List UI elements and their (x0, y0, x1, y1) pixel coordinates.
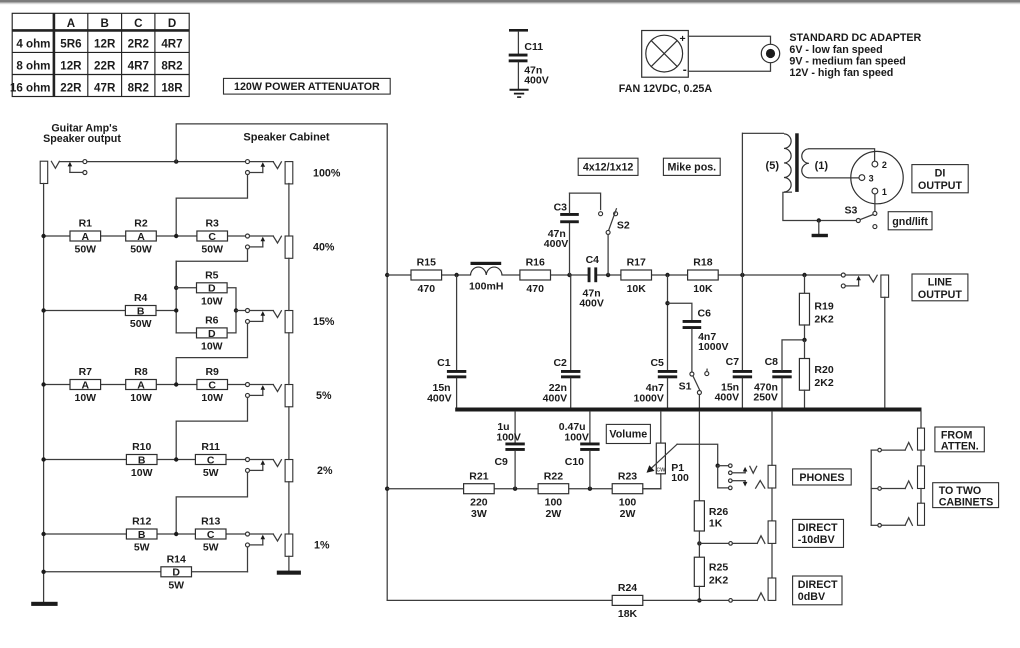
resistor R14 (161, 567, 192, 577)
resistor R8 (126, 380, 157, 390)
node input tap (174, 159, 178, 163)
svg-text:C1: C1 (437, 357, 451, 369)
transformer T1 primary coil (742, 132, 784, 134)
node mid row 5% (174, 382, 178, 386)
svg-text:2W: 2W (620, 508, 636, 520)
output jack 15% tip contact (273, 311, 281, 318)
svg-text:R13: R13 (201, 516, 220, 528)
from-atten tip contact (905, 443, 912, 451)
svg-text:D: D (208, 328, 216, 340)
line output jack wire (845, 274, 869, 276)
capacitor C3 branch (569, 223, 571, 275)
line output jack arrow (858, 279, 860, 286)
XLR pin 3 (859, 175, 865, 181)
svg-text:100mH: 100mH (469, 280, 503, 292)
node direct -10dBV (697, 541, 701, 545)
svg-text:D: D (172, 567, 180, 579)
svg-text:R20: R20 (814, 364, 833, 376)
svg-text:2R2: 2R2 (128, 38, 149, 51)
svg-text:5W: 5W (134, 542, 150, 554)
svg-text:10W: 10W (201, 295, 223, 307)
direct -10dBV tip contact (757, 536, 765, 544)
node mid row 2% (174, 457, 178, 461)
svg-text:10W: 10W (131, 467, 153, 479)
svg-text:10W: 10W (75, 392, 97, 404)
title box 120W POWER ATTENUATOR (224, 78, 391, 94)
wire bus to from-atten jack (920, 412, 922, 429)
node mid row 1% (174, 532, 178, 536)
wire R5/R6 parallel right (227, 288, 236, 333)
transformer T1 primary drop (741, 133, 743, 275)
svg-text:4x12/1x12: 4x12/1x12 (583, 162, 634, 174)
output jack 1% arrow (262, 538, 264, 545)
node left rail row 15% (41, 308, 45, 312)
svg-text:400V: 400V (543, 392, 568, 404)
svg-text:5R6: 5R6 (60, 38, 82, 51)
svg-text:400V: 400V (524, 74, 549, 86)
wire row 1% (44, 533, 127, 535)
svg-text:R4: R4 (134, 292, 148, 304)
capacitor C9 (514, 412, 516, 443)
wire R5/R6 parallel left (175, 261, 177, 333)
svg-text:10W: 10W (201, 392, 223, 404)
node transformer drop (740, 273, 744, 277)
svg-text:LINE: LINE (928, 277, 952, 289)
resistor R20 (804, 340, 806, 359)
output jack 1% tip contact (273, 534, 281, 541)
svg-text:Volume: Volume (609, 429, 647, 441)
from-atten switch contact (881, 449, 905, 451)
wire phones contacts (718, 465, 729, 467)
node left rail row 1% (41, 532, 45, 536)
output jack 2% switch contacts (246, 458, 250, 462)
output jack 2% sleeve (285, 460, 293, 482)
svg-text:A: A (137, 379, 145, 391)
svg-text:R9: R9 (205, 366, 219, 378)
svg-text:FAN 12VDC, 0.25A: FAN 12VDC, 0.25A (619, 83, 713, 95)
svg-text:22R: 22R (94, 60, 116, 73)
svg-text:5W: 5W (168, 579, 184, 591)
ground for C11 (510, 90, 529, 97)
wire line output sleeve to bus (884, 297, 886, 407)
svg-text:2K2: 2K2 (814, 377, 833, 389)
svg-text:DI: DI (935, 167, 946, 179)
wire direct -10dBV jack (699, 542, 728, 544)
svg-text:8 ohm: 8 ohm (16, 60, 50, 73)
direct 0dBV sleeve (768, 578, 776, 600)
node direct 0dBV (697, 598, 701, 602)
svg-text:100: 100 (671, 472, 689, 484)
svg-text:R11: R11 (201, 441, 220, 453)
cabinet jack 2 tip (905, 518, 912, 526)
svg-text:ATTEN.: ATTEN. (941, 441, 979, 453)
box Mike pos. (663, 158, 720, 175)
svg-text:R1: R1 (79, 218, 93, 230)
resistor R25 (694, 557, 704, 586)
wire 5% jack to row5 (176, 398, 247, 460)
transformer primary return wire (783, 192, 856, 220)
svg-text:8R2: 8R2 (161, 60, 182, 73)
output jack 1% switch contacts (246, 532, 250, 536)
input jack switch arrow (69, 165, 71, 172)
output jack 100% wire to tip (250, 161, 274, 163)
svg-text:9V - medium fan speed: 9V - medium fan speed (789, 55, 905, 67)
svg-text:C10: C10 (565, 456, 584, 468)
output jack 40% arrow (262, 240, 264, 247)
wire secondary to XLR (809, 149, 875, 161)
svg-text:C6: C6 (698, 308, 712, 320)
resistor R19 (804, 275, 806, 293)
output jack 40% tip contact (273, 236, 281, 243)
output jack 2% tip contact (273, 460, 281, 467)
resistor R26 (698, 412, 700, 501)
box DIRECT 0dBV (793, 576, 842, 605)
wire row 2% (44, 459, 127, 461)
svg-text:DIRECT: DIRECT (798, 522, 838, 534)
svg-text:0dBV: 0dBV (798, 591, 826, 603)
resistor R1 (70, 231, 101, 241)
svg-text:100%: 100% (313, 167, 341, 179)
output jack 5% arrow (262, 388, 264, 395)
svg-text:5%: 5% (316, 390, 332, 402)
input jack contacts (83, 160, 87, 164)
resistor R2 (126, 231, 157, 241)
line output jack tip (869, 275, 877, 282)
page top scan border (0, 0, 1020, 2)
wire direct 0dBV jack (699, 599, 728, 601)
svg-text:5W: 5W (203, 542, 219, 554)
svg-text:C8: C8 (765, 356, 779, 368)
svg-text:18K: 18K (618, 608, 638, 620)
cabinet jack 1 tip (905, 481, 912, 489)
svg-text:1000V: 1000V (634, 392, 664, 404)
svg-text:C: C (208, 231, 216, 243)
svg-text:10K: 10K (693, 283, 713, 295)
XLR pin 2 (872, 161, 878, 167)
node left rail row 40% (41, 234, 45, 238)
node left rail row 2% (41, 457, 45, 461)
ground DI (818, 221, 820, 234)
svg-text:50W: 50W (201, 244, 223, 256)
svg-text:100V: 100V (496, 431, 521, 443)
svg-text:250V: 250V (753, 392, 778, 404)
svg-text:2%: 2% (317, 465, 333, 477)
output jack 15% sleeve (285, 311, 293, 333)
svg-text:2: 2 (882, 160, 887, 170)
svg-text:R10: R10 (132, 441, 151, 453)
node C5/C6 (665, 273, 669, 277)
svg-text:-: - (683, 63, 687, 77)
node phones feed (716, 464, 720, 468)
svg-text:R6: R6 (205, 315, 219, 327)
node R19/R20 (802, 338, 806, 342)
output jack 40% sleeve (285, 236, 293, 258)
svg-text:400V: 400V (544, 238, 569, 250)
svg-text:+: + (680, 33, 686, 45)
svg-text:R7: R7 (79, 366, 93, 378)
wire pin1 to S3 (874, 194, 876, 211)
svg-text:100V: 100V (564, 431, 589, 443)
svg-text:10W: 10W (130, 392, 152, 404)
svg-text:470: 470 (418, 283, 436, 295)
svg-text:R23: R23 (618, 470, 637, 482)
svg-text:12R: 12R (94, 38, 116, 51)
svg-text:R21: R21 (469, 470, 488, 482)
svg-text:B: B (138, 454, 146, 466)
svg-text:R8: R8 (134, 366, 148, 378)
box gnd/lift (888, 212, 932, 230)
svg-text:C11: C11 (524, 41, 543, 53)
transformer T1 core (795, 133, 799, 192)
svg-text:2K2: 2K2 (814, 313, 833, 325)
ground left rail (31, 602, 57, 606)
svg-text:A: A (137, 231, 145, 243)
capacitor C2 (570, 275, 572, 370)
from-atten jack sleeve (918, 428, 925, 450)
box PHONES (793, 469, 852, 485)
node C1 (454, 273, 458, 277)
node left rail R14 (41, 570, 45, 574)
svg-text:470: 470 (526, 283, 544, 295)
capacitor C4 (588, 267, 591, 282)
node C9 (513, 487, 517, 491)
svg-text:400V: 400V (427, 392, 452, 404)
svg-text:5W: 5W (203, 467, 219, 479)
svg-text:12R: 12R (60, 60, 82, 73)
svg-text:R22: R22 (544, 470, 563, 482)
wire jack column link1 (920, 450, 922, 466)
node mid row 40% (174, 234, 178, 238)
output jack 100% sleeve (285, 162, 293, 184)
svg-text:R19: R19 (814, 300, 833, 312)
svg-text:10K: 10K (627, 283, 647, 295)
node S3 ground tap (817, 218, 821, 222)
svg-text:C9: C9 (494, 456, 508, 468)
svg-text:R14: R14 (167, 554, 186, 566)
svg-text:R26: R26 (709, 506, 728, 518)
wire jack column link2 (920, 489, 922, 504)
resistor R6 (197, 328, 228, 338)
node R19 top (802, 273, 806, 277)
switch S3 (856, 219, 860, 223)
wire row R14 (44, 571, 161, 573)
svg-text:R17: R17 (627, 257, 646, 269)
transformer T1 secondary coil (802, 149, 809, 178)
svg-text:C4: C4 (586, 254, 600, 266)
node C2/C3 (567, 273, 571, 277)
phones ring arrow (732, 480, 745, 482)
svg-text:B: B (138, 529, 146, 541)
resistor R12 (126, 529, 157, 539)
svg-text:22R: 22R (60, 82, 82, 95)
output jack 2% wire to tip (250, 459, 274, 461)
box LINE OUTPUT (912, 274, 968, 301)
svg-text:Speaker Cabinet: Speaker Cabinet (243, 132, 330, 144)
input jack J-in sleeve (40, 161, 48, 183)
ground speaker jack column (277, 571, 301, 575)
svg-text:R18: R18 (693, 257, 712, 269)
input jack tip contact (51, 161, 59, 168)
svg-text:R3: R3 (205, 218, 219, 230)
svg-text:S2: S2 (617, 219, 630, 231)
svg-text:C3: C3 (554, 201, 568, 213)
svg-text:C: C (207, 529, 215, 541)
capacitor C11 (509, 29, 528, 32)
cabinet jack 2 sleeve (918, 503, 925, 525)
svg-text:10W: 10W (201, 341, 223, 353)
svg-text:C: C (207, 454, 215, 466)
output jack 5% tip contact (273, 385, 281, 392)
output jack 1% sleeve (285, 534, 293, 556)
svg-text:S3: S3 (844, 204, 857, 216)
svg-text:8R2: 8R2 (128, 82, 149, 95)
svg-text:C7: C7 (726, 356, 740, 368)
XLR pin 1 (872, 188, 878, 194)
wire main input row (87, 161, 246, 163)
XLR connector DI (851, 151, 903, 203)
output jack 5% wire to tip (250, 384, 274, 386)
output jack 100% arrow (262, 165, 264, 172)
svg-text:Mike pos.: Mike pos. (667, 162, 716, 174)
capacitor C1 (456, 275, 458, 370)
svg-text:R2: R2 (134, 218, 148, 230)
svg-text:4 ohm: 4 ohm (16, 38, 50, 51)
resistor R5 (197, 283, 228, 293)
wire filter main (387, 274, 411, 276)
box FROM ATTEN (935, 427, 984, 452)
ground bus bar (455, 408, 921, 412)
svg-text:220: 220 (470, 497, 488, 509)
svg-text:1K: 1K (709, 518, 723, 530)
svg-text:gnd/lift: gnd/lift (892, 216, 928, 228)
resistor R16 (520, 270, 551, 280)
output jack 15% arrow (262, 314, 264, 321)
left rail wire (43, 184, 45, 602)
output jack 40% wire to tip (250, 235, 274, 237)
capacitor C10 (589, 412, 591, 443)
node tap R21 (385, 487, 389, 491)
svg-text:A: A (82, 231, 90, 243)
resistor R18 (688, 270, 719, 280)
resistor R3 (197, 231, 228, 241)
resistor R24 (612, 595, 643, 605)
svg-text:B: B (137, 305, 145, 317)
output jack 2% arrow (262, 463, 264, 470)
direct 0dBV tip contact (757, 593, 765, 601)
svg-text:DIRECT: DIRECT (798, 579, 838, 591)
svg-text:CABINETS: CABINETS (939, 496, 994, 508)
svg-text:B: B (101, 17, 109, 30)
svg-text:4R7: 4R7 (128, 60, 149, 73)
resistor R15 (411, 270, 442, 280)
svg-text:12V - high fan speed: 12V - high fan speed (789, 67, 893, 79)
svg-text:3: 3 (869, 173, 874, 183)
svg-text:OUTPUT: OUTPUT (918, 289, 962, 301)
inductor L1 100mH (471, 267, 503, 275)
P1 wiper arrow (651, 444, 677, 468)
wire R21 row (387, 488, 463, 490)
svg-text:PHONES: PHONES (799, 472, 844, 484)
line output jack switch contacts (841, 273, 845, 277)
fan symbol M1 (642, 31, 689, 78)
svg-text:-10dBV: -10dBV (798, 534, 836, 546)
phones tip arrow (732, 472, 745, 474)
box Volume (606, 424, 650, 443)
capacitor C5 (667, 275, 669, 370)
svg-text:4R7: 4R7 (161, 38, 182, 51)
svg-text:C: C (208, 379, 216, 391)
svg-text:100: 100 (619, 497, 637, 509)
resistor R4 (125, 306, 156, 316)
svg-text:1%: 1% (314, 540, 330, 552)
resistor R23 (612, 484, 643, 494)
switch S2 (599, 212, 603, 216)
wire 40% jack to row3 (176, 249, 247, 288)
output jack 5% switch contacts (246, 383, 250, 387)
svg-text:Speaker output: Speaker output (43, 133, 121, 145)
svg-text:C2: C2 (553, 357, 567, 369)
wire row 5% (44, 384, 70, 386)
wire tap to filter (top route) (176, 124, 387, 601)
svg-text:D: D (168, 17, 176, 30)
svg-text:D: D (208, 283, 216, 295)
output jack 40% switch contacts (246, 234, 250, 238)
svg-text:16 ohm: 16 ohm (10, 82, 51, 95)
output jack 15% wire to tip (250, 310, 274, 312)
potentiometer P1 (660, 412, 662, 444)
svg-text:50W: 50W (130, 244, 152, 256)
switch S1 (690, 372, 694, 376)
svg-text:50W: 50W (130, 318, 152, 330)
resistor R17 (621, 270, 652, 280)
svg-text:6V - low fan speed: 6V - low fan speed (789, 44, 882, 56)
wire 2% jack to row6 (176, 473, 247, 535)
wire cabinets link (871, 449, 878, 451)
resistor R10 (126, 455, 157, 465)
svg-text:15%: 15% (313, 316, 335, 328)
cabinet jack 1 sleeve (918, 466, 925, 489)
resistor R11 (195, 455, 226, 465)
wire 1% jack to R14 (247, 547, 249, 572)
phones jack contacts (729, 464, 733, 468)
svg-text:C5: C5 (650, 357, 664, 369)
output jack 15% switch contacts (246, 309, 250, 313)
wire speaker jack column (288, 184, 290, 237)
svg-text:3W: 3W (471, 508, 487, 520)
svg-text:(1): (1) (815, 160, 829, 172)
svg-text:R25: R25 (709, 561, 728, 573)
wire 15% jack to row4 (176, 324, 247, 385)
svg-text:(5): (5) (766, 160, 780, 172)
resistor R7 (70, 380, 101, 390)
phones ring contact (756, 481, 765, 489)
node filter tap R15 (385, 273, 389, 277)
capacitor C6 branch (668, 303, 692, 320)
resistor R9 (197, 380, 228, 390)
svg-text:1000V: 1000V (698, 341, 728, 353)
box 4x12/1x12 (578, 158, 638, 175)
svg-text:R15: R15 (417, 257, 436, 269)
svg-text:400V: 400V (579, 298, 604, 310)
output jack 1% wire to tip (250, 533, 274, 535)
output jack 100% switch contacts (246, 160, 250, 164)
direct -10dBV sleeve (768, 521, 776, 544)
line output jack sleeve (881, 275, 889, 297)
svg-text:STANDARD DC ADAPTER: STANDARD DC ADAPTER (789, 32, 921, 44)
resistor R13 (195, 529, 226, 539)
svg-text:40%: 40% (313, 242, 335, 254)
wire 100% jack to row2 (176, 175, 247, 236)
